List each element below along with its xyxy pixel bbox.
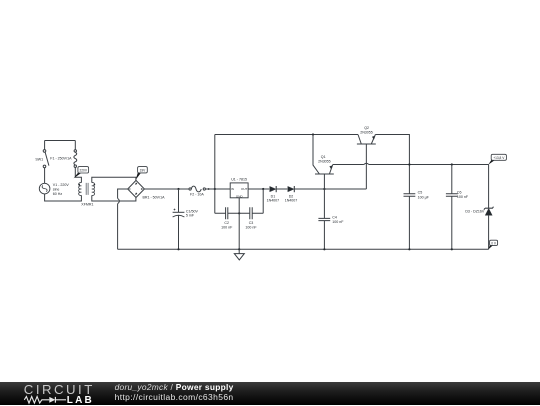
wire output rail [333,164,364,166]
svg-text:C2: C2 [224,221,229,225]
svg-text:1N4007: 1N4007 [267,199,280,203]
svg-text:F2 - 10A: F2 - 10A [190,193,204,197]
svg-text:Q1: Q1 [321,155,326,159]
svg-text:U1 - 7815: U1 - 7815 [231,178,247,182]
svg-text:1N4007: 1N4007 [285,199,298,203]
capacitor C1 [173,189,199,249]
wire hop at secondary crossing [118,198,120,203]
svg-text:2N3055: 2N3055 [318,160,331,164]
wire bridge plus to F2 [144,188,189,190]
transistor Q1 [313,135,334,190]
svg-text:BR1 - 50V/1A: BR1 - 50V/1A [143,195,166,199]
fuse F2 [189,186,205,196]
svg-text:19V: 19V [140,169,147,173]
svg-text:100 nF: 100 nF [457,195,469,199]
footer text line 1 [115,382,234,392]
wire ground vertical down [117,204,119,250]
node GND rail [238,212,240,214]
capacitor C3 [245,207,257,229]
wire V1 to bottom rail [45,194,82,201]
svg-text:XFMR1: XFMR1 [81,203,93,207]
capacitor C4 [318,189,344,249]
callout 19V [136,167,148,180]
wire cap rail [215,212,263,214]
svg-text:C3: C3 [249,221,254,225]
capacitor C5 [404,191,430,250]
transformer XFMR1 [78,183,95,207]
node X [323,188,325,190]
wire IN node vertical [214,135,216,214]
svg-text:D3 - DZ16V: D3 - DZ16V [465,209,485,213]
ground [234,249,244,260]
svg-text:sine: sine [53,187,60,191]
wire bottom rail [118,248,489,250]
wire U1 out [248,188,269,190]
callout 220V [74,167,89,179]
wire output rail right [369,164,489,166]
svg-text:V1 - 220V: V1 - 220V [53,183,70,187]
svg-text:F1 - 250V/1A: F1 - 250V/1A [50,157,72,161]
node C5 bottom [408,248,410,250]
wire SW1 to V1 [44,168,46,184]
node rail Q1 [312,133,314,135]
node C1 top [177,188,179,190]
capacitor C6 [446,165,469,250]
logo resistor diode [22,394,92,406]
node output C5 [408,163,410,165]
svg-text:IN: IN [231,187,234,191]
capacitor C2 [221,207,233,229]
node C6 bottom [451,248,453,250]
diode D1 [267,186,280,203]
node C6 top [451,163,453,165]
wire secondary top to bridge [92,177,136,182]
wire F2 to U1 [205,188,230,190]
callout +13.6 V [488,154,506,164]
node OUT [262,188,264,190]
wire U1 gnd down [238,198,240,250]
wire D3 to 0V rail [488,215,490,249]
node gnd bottom [238,248,240,250]
svg-text:C5: C5 [418,191,423,195]
svg-text:220V: 220V [80,169,88,173]
callout 0 V [488,240,497,249]
footer text line 2 [115,392,234,402]
wire OUT down [262,189,264,213]
node joint [208,188,210,190]
svg-text:OUT: OUT [241,187,248,191]
wire Q2 emitter to output [375,135,409,194]
wire secondary bottom to bridge [92,195,136,201]
diode D2 [285,186,298,203]
node C1 bottom [177,248,179,250]
fuse F1 [50,141,76,168]
wire bridge minus to ground rail [118,189,128,198]
svg-text:100 nF: 100 nF [245,225,257,229]
svg-text:C6: C6 [457,191,462,195]
wire top rail [215,134,358,136]
logo CIRCUIT [24,382,95,397]
svg-text:60 Hz: 60 Hz [53,192,63,196]
logo LAB [67,395,94,406]
svg-text:SW1: SW1 [35,157,43,161]
wire output right down [488,165,490,209]
svg-text:5 mF: 5 mF [186,214,195,218]
wire F1 to transformer primary [75,168,81,183]
wire D1 to D2 [276,188,287,190]
bridge rectifier BR1 [128,180,165,199]
source V1 [39,183,69,196]
transistor Q2 [357,126,376,189]
svg-text:+13,8 V: +13,8 V [493,156,505,160]
node IN [214,188,216,190]
footer bar [0,382,540,405]
regulator U1 [230,178,248,199]
wire D2 to Q bases [295,188,367,190]
wire hop over Q2 base [364,163,369,164]
switch SW1 [35,150,49,168]
svg-text:100 nF: 100 nF [332,220,344,224]
wire top left rail [45,141,76,150]
svg-text:2N3055: 2N3055 [360,131,373,135]
svg-text:100 µF: 100 µF [418,195,430,199]
svg-text:100 nF: 100 nF [221,225,233,229]
node C4 bottom [323,248,325,250]
zener D3 [465,207,493,216]
